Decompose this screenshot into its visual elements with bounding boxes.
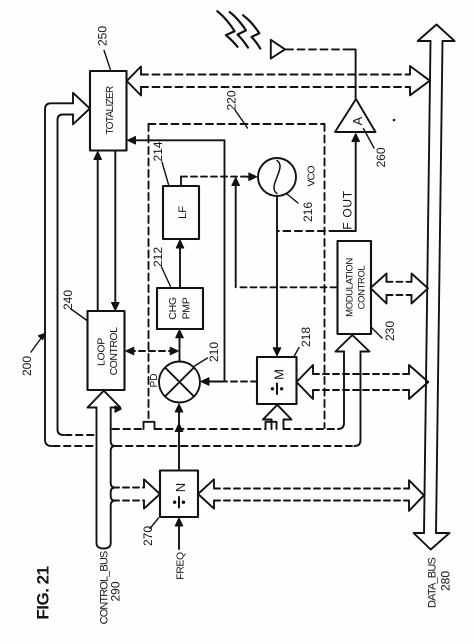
label CONTROL_BUS: [99, 551, 111, 624]
label VCO: [306, 166, 318, 187]
leader 210: [195, 358, 208, 366]
svg-text:CHG: CHG: [167, 297, 179, 320]
svg-text:PD: PD: [149, 374, 160, 388]
modulation control box 230: [338, 241, 372, 334]
svg-text:N: N: [173, 483, 188, 492]
label 216: [301, 202, 315, 222]
svg-text:MODULATION: MODULATION: [345, 258, 356, 317]
svg-text:A: A: [350, 116, 365, 125]
charge pump text: [167, 297, 193, 320]
label 230: [383, 321, 397, 341]
wire modulation vertical up: [235, 182, 237, 287]
dashed box 220 left edge: [148, 124, 150, 418]
svg-text:214: 214: [151, 141, 165, 161]
hollow arrow data bus into divider N right: [198, 479, 214, 508]
svg-text:218: 218: [299, 327, 313, 347]
hollow arrow data bus into divider M right: [297, 365, 314, 399]
data bus channel left line: [424, 41, 431, 533]
leader 270: [150, 518, 159, 529]
hollow arrow bus into totalizer left: [73, 93, 90, 125]
label 214: [151, 141, 165, 161]
radiated wave squiggle 3: [243, 15, 260, 48]
label FREQ: [175, 552, 187, 580]
amplifier label A: [350, 116, 365, 125]
svg-text:FREQ: FREQ: [175, 552, 187, 580]
divider N text: [173, 483, 188, 492]
svg-text:M: M: [272, 369, 287, 380]
hollow arrow control bus into loop control bottom: [88, 391, 121, 408]
svg-text:TOTALIZER: TOTALIZER: [105, 86, 116, 135]
loop control text: [96, 327, 121, 375]
arrow into PD right: [201, 378, 209, 386]
radiated wave squiggle 1: [217, 11, 237, 47]
divider N box 270: [160, 471, 198, 518]
dashed body divider M arrow (lower): [313, 389, 409, 391]
svg-text:200: 200: [20, 356, 34, 376]
svg-text:260: 260: [374, 147, 388, 167]
dashed body divider M arrow (upper): [313, 373, 409, 375]
leader 250: [104, 50, 111, 70]
svg-text:230: 230: [383, 321, 397, 341]
stray dot: [393, 119, 396, 122]
leader 230: [372, 328, 383, 339]
wire loop control to totalizer (up arrow): [97, 154, 99, 311]
hollow arrow dashed bus into totalizer right: [127, 66, 141, 95]
totalizer text: [105, 86, 116, 135]
data bus top arrowhead: [418, 25, 455, 42]
wire modulation control to VCO input (dashed): [237, 286, 337, 288]
wire antenna to amplifier (dashed horizontal): [286, 48, 349, 50]
loop filter text LF: [177, 206, 189, 219]
hollow arrow control bus into divider M bottom: [263, 405, 292, 420]
wire F OUT vertical into amplifier: [355, 140, 357, 231]
leader 240: [71, 309, 87, 321]
hollow arrow into data bus top right: [410, 66, 430, 95]
divider M text: [272, 369, 287, 380]
svg-text:240: 240: [61, 290, 75, 310]
modulation arrow body elbows: [338, 352, 361, 447]
VCO sine symbol: [274, 161, 280, 194]
label 260: [374, 147, 388, 167]
label 270: [141, 526, 155, 546]
hop over dashed box edge: [144, 422, 155, 429]
amplifier U260 triangle: [335, 99, 376, 132]
data bus channel right line: [436, 41, 443, 533]
label 200: [20, 356, 34, 376]
svg-text:280: 280: [439, 571, 453, 591]
dashed double arrow loop control to PD line: [129, 350, 175, 352]
antenna: [271, 40, 285, 59]
label 218: [299, 327, 313, 347]
dashed box 220 top edge: [149, 123, 325, 125]
svg-text:FIG. 21: FIG. 21: [34, 566, 53, 619]
label F OUT: [341, 190, 355, 230]
VCO circle 216: [258, 158, 296, 196]
svg-text:PMP: PMP: [181, 297, 193, 319]
leader 212: [162, 267, 171, 287]
wire divider N to PD: [178, 406, 180, 471]
svg-text:F OUT: F OUT: [341, 190, 355, 230]
charge pump box 212: [157, 288, 203, 329]
phase detector PD circle 210: [159, 362, 200, 403]
wire VCO branch dashed to F OUT: [277, 230, 336, 232]
label 290: [109, 581, 123, 601]
label 250: [96, 26, 110, 46]
label 212: [151, 247, 165, 267]
label 210: [207, 342, 221, 362]
wire divider M output to totalizer right: [130, 140, 225, 381]
dashed control bus lower line: [53, 445, 97, 447]
hop over divider M body: [266, 422, 277, 429]
dashed body divider N left: [113, 487, 144, 489]
label 220: [225, 90, 239, 110]
hollow arrow into data bus middle: [409, 365, 428, 399]
svg-text:290: 290: [109, 581, 123, 601]
dashed control bus upper line: [65, 434, 97, 436]
dashed bus pair to data bus (lower): [141, 86, 410, 88]
svg-text:LF: LF: [177, 206, 189, 219]
radiated wave squiggle 2: [230, 12, 248, 48]
svg-text:220: 220: [225, 90, 239, 110]
wire antenna corner to amplifier (solid): [349, 49, 356, 98]
wire charge pump to loop filter: [179, 243, 181, 289]
dashed body divider N right: [214, 488, 409, 490]
loop filter box 214: [163, 186, 199, 239]
leader 214: [162, 162, 169, 185]
label DATA_BUS: [427, 558, 439, 609]
label PD: [149, 374, 160, 388]
label 240: [61, 290, 75, 310]
leader 218: [294, 348, 299, 357]
PD mixer X: [165, 368, 194, 397]
svg-text:VCO: VCO: [306, 166, 318, 187]
dashed bus pair to data bus (upper): [141, 74, 410, 76]
totalizer box 250: [90, 71, 127, 151]
hollow arrow control bus into modulation control bottom: [336, 335, 370, 352]
leader 260: [364, 129, 375, 149]
svg-text:CONTROL: CONTROL: [108, 327, 120, 375]
svg-text:LOOP: LOOP: [96, 338, 108, 366]
label 280: [439, 571, 453, 591]
dashed box 220 right edge: [324, 124, 326, 428]
leader 220: [235, 110, 248, 128]
loop control box 240: [88, 311, 125, 390]
svg-text:DATA_BUS: DATA_BUS: [427, 558, 439, 609]
svg-text:270: 270: [141, 526, 155, 546]
hollow arrow control bus into divider N left: [144, 479, 160, 508]
control bus channel: [97, 408, 116, 549]
modulation control text: [345, 258, 368, 317]
wire dashed divider M to junction: [226, 381, 257, 383]
wire totalizer to loop control (down arrow): [114, 151, 116, 308]
wire PD to charge pump: [179, 332, 181, 362]
hollow arrow into data bus bottom: [409, 480, 424, 511]
leader 216: [287, 194, 298, 203]
svg-text:216: 216: [301, 202, 315, 222]
wire FREQ into divider N: [178, 520, 180, 549]
control bus rail outer (upper body line, left rail): [45, 103, 73, 446]
control bus rail inner: [58, 115, 74, 436]
figure label FIG. 21: [34, 566, 53, 619]
wire F OUT corner horizontal: [336, 230, 355, 232]
divider M arrow body: [272, 420, 284, 430]
wire loop filter to VCO: [180, 177, 182, 186]
hollow double arrow modulation control to data bus: [371, 274, 387, 304]
svg-text:250: 250: [96, 26, 110, 46]
svg-text:CONTROL: CONTROL: [357, 266, 368, 310]
small arrow mark on loop control arrow: [115, 406, 121, 413]
divider M box 218: [257, 357, 297, 404]
data bus bottom arrowhead: [414, 533, 450, 550]
svg-text:212: 212: [151, 247, 165, 267]
leader arrow 200: [31, 336, 43, 353]
wire VCO output down to divider M: [276, 196, 278, 353]
svg-text:210: 210: [207, 342, 221, 362]
